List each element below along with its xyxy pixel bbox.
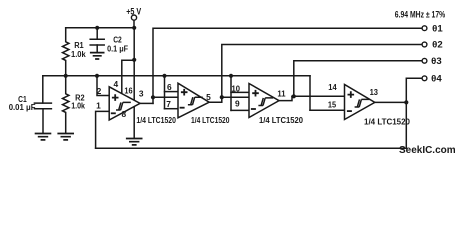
ground under pin 8 [126,139,143,145]
svg-text:1/4 LTC1520: 1/4 LTC1520 [136,116,176,125]
svg-text:1/4 LTC1520: 1/4 LTC1520 [259,116,303,125]
svg-text:1/4 LTC1520: 1/4 LTC1520 [191,116,230,125]
svg-text:θ1: θ1 [432,23,443,33]
svg-text:11: 11 [277,89,286,99]
capacitor C2 plates [90,39,104,45]
svg-text:θ4: θ4 [431,73,442,83]
wire pin 8 to ground [133,106,135,138]
op-amp U1d 1/4 LTC1520 [345,85,375,120]
wire branch to pin 4 [122,60,134,93]
node rail to gate3 drop [229,74,233,78]
svg-text:14: 14 [328,82,337,92]
svg-text:1/4 LTC1520: 1/4 LTC1520 [364,117,410,126]
wire node to pin 2 [97,76,109,96]
svg-text:θ3: θ3 [431,56,442,66]
wire gate2 minus input [165,108,179,110]
svg-text:9: 9 [235,99,240,109]
svg-text:16: 16 [124,86,132,96]
node gate1 output [151,95,155,99]
wire theta2 riser and line [222,45,422,98]
op-amp U1b 1/4 LTC1520 [178,83,209,118]
wire theta4 riser and line [406,78,422,102]
capacitor C2 stem top [96,28,98,39]
wire theta1 riser and line [153,28,422,103]
wire theta3 riser and line [294,61,422,97]
terminal theta2 [422,42,427,47]
wire gate2 output jog [209,97,222,102]
wire gate3 output jog [279,96,292,100]
ground under C1 [35,134,52,140]
svg-text:4: 4 [113,79,118,89]
node R1 R2 junction [64,74,68,78]
resistor R2 [62,76,68,134]
svg-text:8: 8 [121,109,126,119]
svg-text:+5 V: +5 V [126,6,141,16]
terminal theta4 [422,76,427,81]
ground under C2 [90,53,105,59]
node gate2 output [220,95,224,99]
node pin4 branch [132,58,136,62]
svg-text:θ2: θ2 [432,40,443,50]
svg-text:5: 5 [206,92,211,102]
node rail to gate2 drop [162,74,166,78]
wire pin 1 feedback left [96,111,110,148]
wire top supply rail [66,27,135,29]
wire gate1 out to gate2 mid input [153,96,178,98]
op-amp U1a 1/4 LTC1520 [109,87,140,120]
svg-text:10: 10 [232,83,241,93]
node +5V at rail [132,26,136,30]
wire gate4 output [375,101,407,103]
svg-text:1.0k: 1.0k [71,100,85,110]
node gate4 output [404,100,408,104]
resistor R1 [62,28,68,76]
wire gate2 out to gate3 mid input [222,96,249,98]
wire gate3 minus input [231,109,249,111]
wire gate3 input drop [230,76,232,111]
capacitor C1 plates [34,103,51,109]
wire +5V stem [133,20,135,28]
svg-text:15: 15 [328,100,336,110]
op-amp U1c 1/4 LTC1520 [249,84,279,118]
wire RC node rail [43,75,310,77]
svg-text:0.1 μF: 0.1 μF [107,43,128,53]
terminal theta1 [422,26,427,31]
wire gate1 output jog [140,102,153,104]
capacitor C1 stem top [42,76,44,103]
wire gate4 input drop from rail [309,76,311,110]
node C2 at rail [95,26,99,30]
wire bottom feedback line [96,102,407,148]
svg-text:3: 3 [139,89,144,99]
svg-text:6: 6 [167,82,172,92]
wire gate4 minus input [310,109,345,111]
capacitor C1 stem bottom [42,109,44,134]
svg-text:1.0k: 1.0k [71,49,86,59]
svg-text:SeekIC.com: SeekIC.com [399,145,456,156]
wire +5V down to pin 16 [133,28,135,100]
capacitor C2 stem bottom [96,45,98,52]
wire gate2 plus input [165,91,179,93]
wire gate3 out to gate4 mid input [292,95,345,97]
svg-text:0.01 μF: 0.01 μF [9,102,36,112]
ground under R2 [57,134,74,140]
svg-text:13: 13 [370,87,379,97]
wire gate2 input drop [164,76,166,109]
svg-text:7: 7 [166,99,171,109]
terminal theta3 [422,58,427,63]
svg-text:2: 2 [97,86,102,96]
wire gate3 plus input [231,91,249,93]
node gate3 output [292,94,296,98]
+5V supply terminal [131,15,136,20]
svg-text:6.94 MHz ± 17%: 6.94 MHz ± 17% [395,10,446,20]
node rail to pin2 [95,74,99,78]
svg-text:1: 1 [96,100,101,110]
